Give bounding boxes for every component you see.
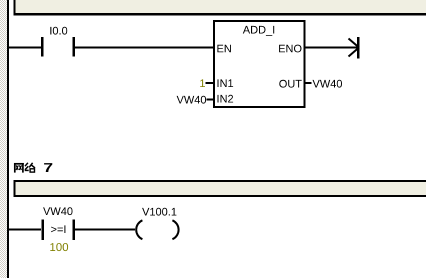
network 6 comment box (clipped at top) [14,0,426,16]
coil V100.1 [136,220,178,239]
left margin dither strip [0,0,7,278]
network 7 title glyph wang [14,163,24,173]
text pin OUT [279,80,301,88]
text pin EN [217,45,231,53]
text compare op >=I [51,225,65,233]
text network number 7 [44,163,52,172]
text pin IN2 [218,95,234,103]
text OUT operand VW40 [313,80,343,88]
op block ADD_I U1 box [213,20,306,108]
text pin IN1 [218,79,234,87]
network 7 title glyph luo [25,163,35,172]
text title ADD_I [243,26,274,36]
text label I0.0 [50,27,67,35]
text compare constant 100 [50,243,68,251]
IN2 stub wire [207,99,214,101]
text compare operand VW40 [43,207,72,215]
continuation arrow [349,37,360,59]
wire contact to ADD_I EN [75,47,213,49]
compare contact bars [42,220,76,241]
text IN2 operand VW40 [177,96,207,104]
text IN1 constant 1 [200,79,205,87]
wire compare contact to coil [75,229,135,231]
IN1 stub wire [206,82,214,84]
wire rail to contact [9,47,41,49]
wire ENO to continuation arrow [306,47,358,49]
text coil operand V100.1 [142,208,176,216]
text pin ENO [279,45,301,53]
OUT stub wire [306,82,312,84]
left power rail [7,0,9,278]
network 7 comment bar [14,180,426,197]
contact I0.0 [41,37,75,57]
wire rail to compare contact [9,229,41,231]
